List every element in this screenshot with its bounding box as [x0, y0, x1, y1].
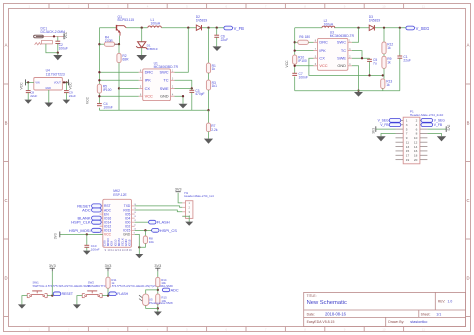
svg-text:10k: 10k	[149, 240, 154, 244]
svg-text:C: C	[4, 198, 7, 203]
svg-text:12: 12	[414, 140, 418, 144]
svg-text:1k: 1k	[387, 60, 391, 64]
svg-text:3: 3	[406, 123, 408, 127]
svg-text:1N5819: 1N5819	[147, 47, 158, 51]
svg-text:ADC: ADC	[82, 207, 91, 212]
svg-text:GND: GND	[160, 94, 169, 99]
svg-text:Photoresistor-5528: Photoresistor-5528	[149, 301, 173, 305]
svg-text:HSPI_CLK: HSPI_CLK	[71, 220, 91, 225]
svg-text:6: 6	[416, 127, 418, 131]
svg-text:3V3: 3V3	[54, 233, 58, 239]
svg-text:IO0: IO0	[125, 220, 130, 224]
svg-text:IPK: IPK	[319, 48, 326, 53]
svg-text:DCJACK-2.0MM: DCJACK-2.0MM	[41, 30, 66, 34]
svg-text:New Schematic: New Schematic	[307, 300, 347, 306]
svg-text:BCP53.115: BCP53.115	[118, 18, 135, 22]
svg-text:VCC: VCC	[86, 96, 90, 104]
svg-text:100nF: 100nF	[91, 248, 100, 252]
svg-text:VCC: VCC	[319, 63, 327, 68]
svg-text:VCC: VCC	[64, 31, 68, 38]
svg-text:3V3: 3V3	[105, 264, 112, 268]
svg-text:B: B	[467, 121, 470, 126]
svg-text:IO15: IO15	[123, 229, 130, 233]
svg-text:1k: 1k	[387, 46, 391, 50]
svg-text:8: 8	[416, 132, 418, 136]
svg-text:9: 9	[406, 136, 408, 140]
svg-text:PUSHBUTTON-4.5*4.5*5.PLASTIC-H: PUSHBUTTON-4.5*4.5*5.PLASTIC-HEAD-2N(T)2…	[88, 284, 174, 288]
svg-text:10: 10	[414, 136, 418, 140]
svg-text:11: 11	[406, 140, 409, 144]
svg-text:GND: GND	[123, 233, 131, 237]
svg-text:1N5819: 1N5819	[196, 18, 208, 22]
svg-text:REV:: REV:	[438, 299, 445, 303]
svg-text:1k: 1k	[212, 67, 216, 71]
svg-text:VCC: VCC	[68, 82, 72, 90]
svg-text:V_SEG: V_SEG	[434, 119, 445, 123]
svg-text:MC34063BD-TR: MC34063BD-TR	[154, 65, 179, 69]
svg-text:IP100: IP100	[103, 88, 112, 92]
svg-text:IO2: IO2	[125, 225, 130, 229]
svg-text:RXD: RXD	[123, 208, 131, 212]
svg-text:EN: EN	[104, 212, 109, 216]
svg-text:IO13: IO13	[104, 229, 111, 233]
svg-text:TITLE:: TITLE:	[307, 294, 317, 298]
svg-text:22uF: 22uF	[403, 58, 411, 62]
svg-text:ADC: ADC	[171, 288, 179, 292]
svg-text:V_SEG: V_SEG	[416, 26, 430, 31]
svg-text:22uF: 22uF	[30, 94, 37, 98]
svg-text:68R: 68R	[122, 57, 129, 61]
svg-text:EasyEDA V5.8.15: EasyEDA V5.8.15	[307, 320, 335, 324]
svg-text:Drawn By:: Drawn By:	[388, 320, 404, 324]
svg-text:D: D	[466, 276, 469, 281]
svg-text:A: A	[467, 43, 470, 48]
svg-text:100uH: 100uH	[151, 22, 161, 26]
svg-text:SWE: SWE	[160, 86, 169, 91]
svg-text:HSPI_CS: HSPI_CS	[160, 228, 177, 233]
svg-text:FLASH: FLASH	[117, 292, 128, 296]
svg-text:22uF: 22uF	[221, 38, 229, 42]
svg-text:A: A	[5, 43, 8, 48]
svg-text:13: 13	[406, 145, 410, 149]
svg-text:SWC: SWC	[337, 40, 346, 45]
svg-text:5: 5	[406, 127, 408, 131]
svg-text:17: 17	[406, 153, 410, 157]
svg-text:VOUT: VOUT	[54, 82, 61, 85]
svg-text:19: 19	[406, 158, 410, 162]
svg-text:VIN: VIN	[35, 82, 39, 85]
svg-text:7u: 7u	[373, 61, 377, 65]
svg-text:16: 16	[414, 149, 418, 153]
svg-text:3V3: 3V3	[49, 264, 56, 268]
svg-text:180: 180	[305, 35, 311, 39]
svg-text:10k: 10k	[161, 281, 166, 285]
svg-text:FLASH: FLASH	[157, 220, 170, 225]
svg-text:100nF: 100nF	[299, 75, 308, 79]
svg-text:15: 15	[406, 149, 410, 153]
svg-text:10: 10	[382, 5, 386, 9]
svg-text:3V3: 3V3	[154, 264, 161, 268]
svg-text:270R: 270R	[105, 39, 114, 43]
svg-text:1: 1	[406, 119, 408, 123]
svg-text:IO14: IO14	[104, 220, 111, 224]
svg-text:IPK: IPK	[145, 78, 152, 83]
svg-text:IP100: IP100	[298, 59, 307, 63]
svg-text:3V3: 3V3	[372, 128, 376, 134]
svg-text:Header-Male-2.54_2x10: Header-Male-2.54_2x10	[410, 113, 444, 117]
svg-text:C: C	[466, 198, 469, 203]
svg-text:HSPI_MOSI: HSPI_MOSI	[69, 228, 91, 233]
svg-text:IO4: IO4	[125, 216, 130, 220]
svg-text:18: 18	[414, 153, 418, 157]
svg-text:1.0: 1.0	[448, 299, 453, 303]
svg-text:20: 20	[414, 158, 418, 162]
svg-text:VCC: VCC	[285, 60, 289, 68]
svg-text:11: 11	[422, 5, 425, 9]
svg-text:TXD: TXD	[124, 204, 131, 208]
svg-text:100uF: 100uF	[59, 46, 68, 50]
svg-text:Header-Male-2.54_1x4: Header-Male-2.54_1x4	[184, 194, 214, 198]
svg-text:TC: TC	[163, 78, 168, 83]
svg-text:IO15: IO15	[127, 239, 131, 246]
svg-text:IO12: IO12	[104, 225, 111, 229]
svg-text:1k: 1k	[386, 83, 390, 87]
svg-text:DRC: DRC	[319, 40, 328, 45]
svg-text:100uH: 100uH	[324, 22, 334, 26]
svg-text:IO5: IO5	[125, 212, 130, 216]
svg-text:B: B	[5, 121, 8, 126]
svg-text:22uF: 22uF	[69, 94, 76, 98]
svg-text:SWITCH-4.5*4.5*5.SPLASTIC-HEAD: SWITCH-4.5*4.5*5.SPLASTIC-HEAD-SMD	[33, 284, 91, 288]
svg-text:ESP-12E: ESP-12E	[113, 193, 127, 197]
svg-text:V_SEG: V_SEG	[378, 119, 389, 123]
svg-text:2: 2	[416, 119, 418, 123]
svg-text:VCC: VCC	[145, 94, 153, 99]
svg-text:3V3: 3V3	[175, 188, 182, 192]
svg-text:1/1: 1/1	[436, 312, 441, 316]
svg-text:SWE: SWE	[337, 56, 346, 61]
svg-text:VCC: VCC	[20, 82, 24, 90]
svg-text:2018-08-16: 2018-08-16	[325, 311, 347, 316]
svg-text:Sheet:: Sheet:	[421, 312, 431, 316]
svg-text:4: 4	[416, 123, 418, 127]
svg-text:3V3: 3V3	[447, 125, 451, 131]
svg-text:7: 7	[406, 132, 408, 136]
svg-text:V_FB: V_FB	[234, 26, 245, 31]
svg-text:2.2k: 2.2k	[211, 128, 218, 132]
svg-text:IO16: IO16	[104, 216, 111, 220]
svg-text:CX: CX	[145, 86, 151, 91]
svg-text:470pF: 470pF	[195, 92, 204, 96]
svg-text:RESET: RESET	[62, 292, 73, 296]
svg-text:DRC: DRC	[145, 70, 154, 75]
svg-text:MC34063BD-TR: MC34063BD-TR	[330, 34, 355, 38]
svg-text:GND: GND	[45, 87, 51, 90]
svg-text:1N5819: 1N5819	[369, 18, 381, 22]
svg-text:10: 10	[382, 328, 386, 332]
svg-text:RST: RST	[104, 204, 111, 208]
svg-text:R6: R6	[299, 35, 303, 39]
svg-text:100nF: 100nF	[103, 106, 112, 110]
svg-text:V_FB: V_FB	[434, 123, 443, 127]
svg-text:1117SOT223: 1117SOT223	[46, 73, 65, 77]
svg-text:VCC: VCC	[104, 233, 112, 237]
svg-text:stasiontko: stasiontko	[410, 320, 427, 324]
svg-text:GND: GND	[337, 63, 346, 68]
svg-text:TC: TC	[341, 48, 346, 53]
svg-text:ADC: ADC	[104, 208, 112, 212]
svg-text:SWC: SWC	[160, 70, 169, 75]
svg-text:CX: CX	[319, 56, 325, 61]
svg-text:11: 11	[422, 328, 425, 332]
svg-text:1k1: 1k1	[212, 84, 217, 88]
svg-text:V_FB: V_FB	[380, 123, 389, 127]
svg-text:Date:: Date:	[307, 312, 315, 316]
svg-text:14: 14	[414, 145, 418, 149]
svg-text:D: D	[4, 276, 7, 281]
svg-text:U4: U4	[46, 69, 50, 73]
